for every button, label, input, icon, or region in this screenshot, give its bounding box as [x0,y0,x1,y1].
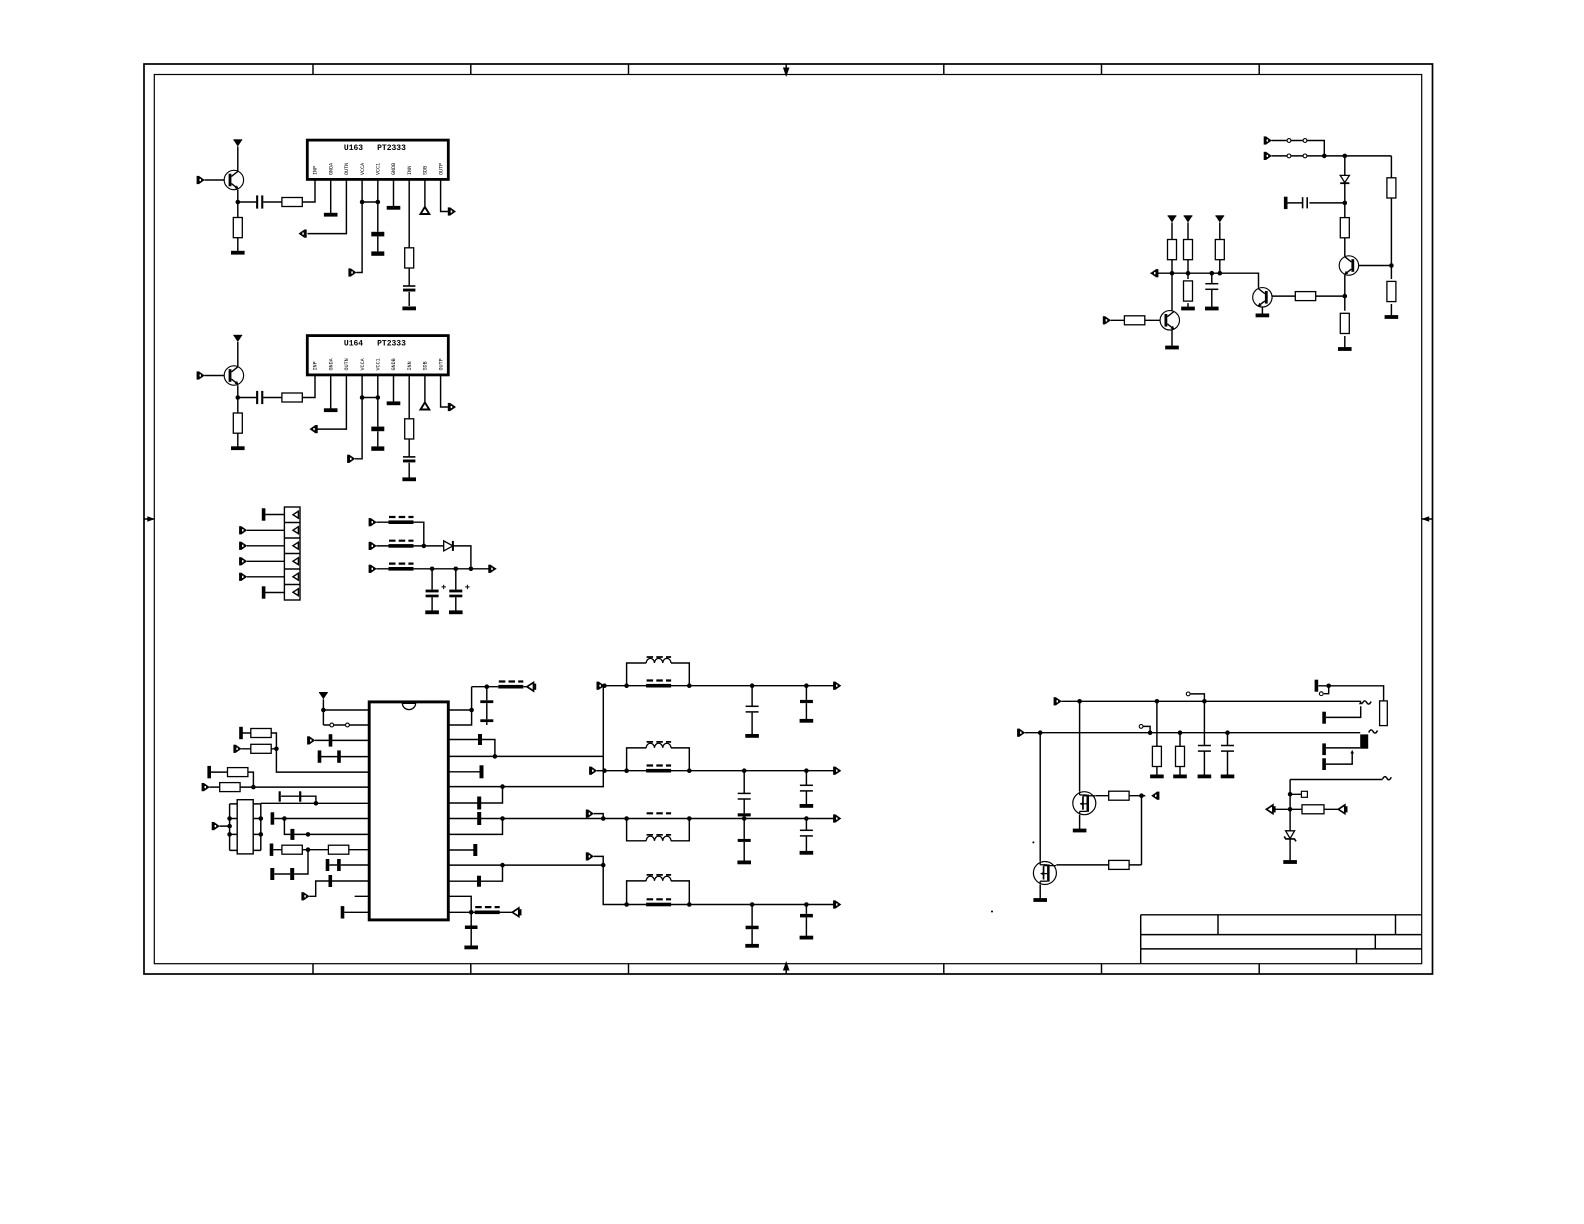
svg-text:VCCA: VCCA [360,162,366,175]
svg-text:OUTN: OUTN [344,163,350,175]
svg-text:VCCA: VCCA [360,357,366,370]
svg-text:OUTP: OUTP [438,163,444,175]
svg-text:SDB: SDB [423,361,429,370]
svg-text:GNDB: GNDB [391,358,397,370]
svg-text:INN: INN [407,361,413,370]
svg-text:U164: U164 [344,340,363,349]
svg-text:PT2333: PT2333 [377,340,406,349]
svg-text:VCC1: VCC1 [376,163,382,175]
svg-text:OUTN: OUTN [344,358,350,370]
svg-text:INN: INN [407,166,413,175]
svg-text:OUTP: OUTP [438,358,444,370]
svg-text:PT2333: PT2333 [377,144,406,153]
svg-text:GNDA: GNDA [328,162,334,175]
svg-text:SDB: SDB [423,166,429,175]
svg-text:INP: INP [313,166,319,175]
svg-text:INP: INP [313,361,319,370]
svg-text:GNDA: GNDA [328,357,334,370]
svg-text:U163: U163 [344,144,363,153]
svg-text:GNDB: GNDB [391,163,397,175]
svg-text:VCC1: VCC1 [376,358,382,370]
